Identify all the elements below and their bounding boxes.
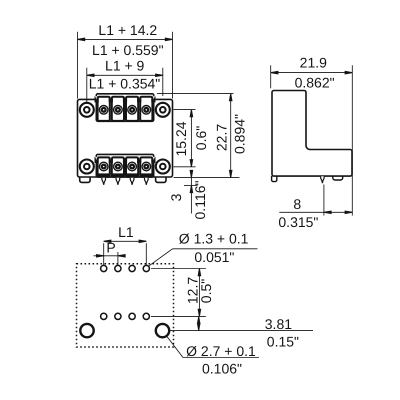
dim line 8 bbox=[279, 211, 352, 213]
ext 21.9 left bbox=[270, 65, 272, 88]
solder pins front view bbox=[102, 178, 148, 185]
svg-text:0.051": 0.051" bbox=[194, 249, 234, 265]
dark bars bottom row bbox=[98, 173, 152, 176]
L-shaped body profile bbox=[272, 91, 352, 177]
ext pin tips bbox=[184, 184, 198, 186]
small holes middle row bbox=[101, 313, 150, 319]
terminal segment 2 (top row) bbox=[112, 97, 124, 121]
dotted outline bbox=[77, 264, 174, 347]
leader dia 1.3 bbox=[148, 249, 172, 266]
big hole right bbox=[156, 324, 169, 337]
svg-text:L1 + 0.354": L1 + 0.354" bbox=[89, 76, 161, 92]
svg-text:3.81: 3.81 bbox=[265, 316, 292, 332]
side pin bbox=[321, 176, 324, 183]
arrowhead dim L1+14.2 left bbox=[78, 38, 85, 41]
arrowhead dim 22.7 top bbox=[229, 94, 232, 101]
ext line L1+9 right bbox=[162, 68, 164, 96]
svg-text:P: P bbox=[106, 240, 115, 256]
arrowhead dim L1+14.2 right bbox=[165, 38, 172, 41]
dim line P with tails bbox=[94, 255, 126, 257]
ext 12.7 bottom bbox=[151, 315, 206, 317]
ext P right bbox=[117, 252, 119, 265]
arrowhead dim 21.9 right bbox=[345, 71, 352, 74]
dim line L1+9 bbox=[87, 74, 163, 76]
dim line L1+14.2 bbox=[78, 38, 173, 40]
arrowhead dim 15.24 top bbox=[190, 110, 193, 117]
mounting ear bottom-right bbox=[156, 160, 170, 174]
ext top row center bbox=[174, 109, 196, 111]
connector body outline bbox=[78, 99, 173, 177]
ext L1 left bbox=[103, 243, 105, 265]
svg-text:L1 + 9: L1 + 9 bbox=[105, 58, 145, 74]
svg-text:L1 + 14.2: L1 + 14.2 bbox=[98, 22, 157, 38]
housing bottom row outline bbox=[96, 154, 153, 177]
arrowhead dim L1+9 right bbox=[156, 74, 163, 77]
arrowhead dim 3.81 bottom bbox=[197, 323, 200, 330]
svg-text:15.24: 15.24 bbox=[173, 121, 189, 156]
svg-text:0.6": 0.6" bbox=[193, 126, 209, 150]
ext 12.7 top bbox=[151, 268, 206, 270]
arrowhead dim L1 right bbox=[139, 240, 146, 243]
ext housing top bbox=[157, 93, 234, 95]
svg-text:3: 3 bbox=[168, 193, 184, 201]
housing top row outline bbox=[96, 94, 153, 122]
arrowhead dim 15.24 bottom bbox=[190, 160, 193, 167]
mounting ear bottom-left bbox=[80, 160, 94, 174]
svg-text:0.106": 0.106" bbox=[202, 361, 242, 377]
terminal segment 4 (top row) bbox=[140, 97, 152, 121]
terminal segment 2 (bottom row) bbox=[112, 157, 124, 176]
side tab right bbox=[333, 176, 343, 180]
dim line 22.7 bbox=[230, 94, 232, 178]
terminal segment 4 (bottom row) bbox=[140, 157, 152, 176]
mounting ear top-right bbox=[156, 103, 170, 117]
arrowhead dim 3 bottom bbox=[190, 185, 193, 192]
dim line 3 with tails bbox=[190, 171, 192, 214]
big hole left bbox=[80, 324, 93, 337]
ext line L1+9 left bbox=[86, 68, 88, 103]
ext 3.81 bottom / underline bbox=[169, 330, 313, 332]
dim line 21.9 bbox=[271, 72, 353, 74]
arrowhead dim 12.7 bottom bbox=[198, 309, 201, 316]
terminal segment 1 (bottom row) bbox=[98, 157, 110, 176]
screws top row bbox=[99, 106, 150, 115]
terminal segment 3 (bottom row) bbox=[126, 157, 138, 176]
small holes top row bbox=[101, 265, 150, 271]
arrowhead dim 21.9 left bbox=[271, 71, 278, 74]
arrowhead dim L1 left bbox=[104, 240, 111, 243]
svg-text:L1 + 0.559": L1 + 0.559" bbox=[92, 42, 164, 58]
side view dimensions bbox=[271, 65, 353, 215]
housing bottom row tabs bbox=[95, 157, 156, 163]
arrowhead dim 8 right bbox=[345, 211, 352, 214]
screws bottom row bbox=[99, 162, 150, 171]
svg-text:0.862": 0.862" bbox=[295, 74, 335, 90]
arrowhead dim 8 left bbox=[324, 211, 331, 214]
ext line L1+14.2 left bbox=[77, 32, 79, 99]
svg-text:21.9: 21.9 bbox=[300, 55, 327, 71]
svg-text:Ø 2.7 + 0.1: Ø 2.7 + 0.1 bbox=[186, 343, 256, 359]
ext 21.9 / 8 right bbox=[351, 65, 353, 215]
bottom view dimensions bbox=[94, 241, 314, 357]
svg-text:0.116": 0.116" bbox=[192, 180, 208, 219]
terminal segment 3 (top row) bbox=[126, 97, 138, 121]
ext line L1+14.2 right bbox=[172, 32, 174, 99]
arrowhead dim 3.81 top bbox=[197, 316, 200, 323]
svg-text:Ø 1.3 + 0.1: Ø 1.3 + 0.1 bbox=[179, 231, 249, 247]
dim line L1 bbox=[104, 240, 147, 242]
foot right front view bbox=[156, 177, 166, 182]
dim line 15.24 bbox=[190, 110, 192, 167]
arrowhead dim P right bbox=[118, 255, 125, 257]
svg-text:0.894": 0.894" bbox=[232, 114, 248, 154]
svg-text:8: 8 bbox=[293, 196, 301, 212]
arrowhead dim 22.7 bottom bbox=[229, 170, 232, 177]
dim line 3.81 bbox=[198, 316, 200, 330]
housing top row tabs bbox=[95, 96, 156, 102]
svg-text:0.15": 0.15" bbox=[267, 334, 299, 350]
dim line 12.7 bbox=[198, 269, 200, 317]
arrowhead dim 3 top bbox=[190, 170, 193, 177]
ext body bottom bbox=[174, 177, 240, 179]
arrowhead dim 12.7 top bbox=[198, 269, 201, 276]
ext bottom row center bbox=[174, 166, 196, 168]
leader dia 2.7 bbox=[166, 336, 183, 358]
arrowhead dim L1+9 left bbox=[87, 74, 94, 77]
svg-text:L1: L1 bbox=[118, 224, 134, 240]
ext L1 right bbox=[145, 243, 147, 265]
svg-text:22.7: 22.7 bbox=[214, 124, 230, 151]
side foot left bbox=[272, 176, 277, 182]
mounting ear top-left bbox=[80, 103, 94, 117]
foot left front view bbox=[80, 177, 90, 182]
svg-text:0.315": 0.315" bbox=[278, 214, 318, 230]
arrowhead dim P left bbox=[97, 255, 104, 257]
ext 8 pin bbox=[323, 185, 325, 216]
terminal segment 1 (top row) bbox=[98, 97, 110, 121]
svg-text:0.5": 0.5" bbox=[198, 279, 214, 303]
